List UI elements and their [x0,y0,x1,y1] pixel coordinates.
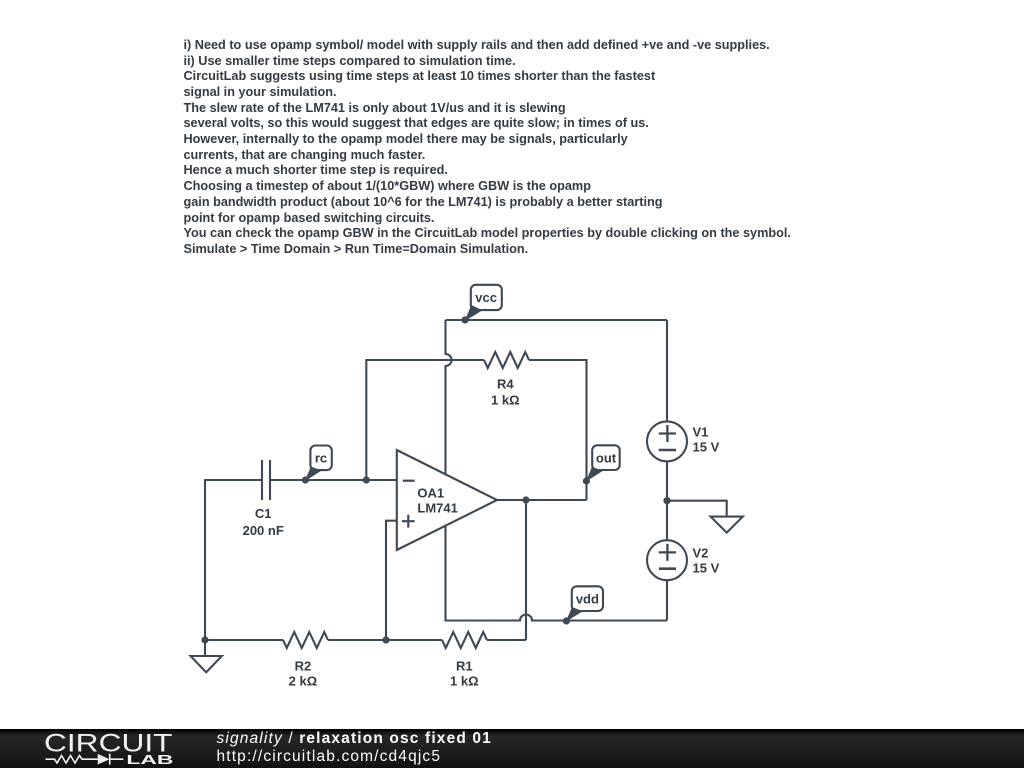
svg-text:15 V: 15 V [693,439,720,454]
svg-text:15 V: 15 V [693,560,720,575]
svg-text:out: out [596,450,617,465]
svg-text:LAB: LAB [126,752,173,767]
svg-text:OA1: OA1 [417,486,444,501]
svg-text:2 kΩ: 2 kΩ [289,674,318,689]
svg-text:R1: R1 [456,659,473,674]
svg-text:LM741: LM741 [417,500,457,515]
svg-text:200 nF: 200 nF [243,523,284,538]
svg-text:V1: V1 [693,425,709,440]
svg-text:1 kΩ: 1 kΩ [450,674,479,689]
svg-text:rc: rc [315,451,327,466]
svg-text:C1: C1 [255,506,272,521]
svg-text:1 kΩ: 1 kΩ [491,393,520,408]
svg-text:R4: R4 [497,377,514,392]
svg-text:vdd: vdd [576,592,599,607]
svg-text:vcc: vcc [475,290,497,305]
svg-text:R2: R2 [295,659,312,674]
svg-text:V2: V2 [693,545,709,560]
